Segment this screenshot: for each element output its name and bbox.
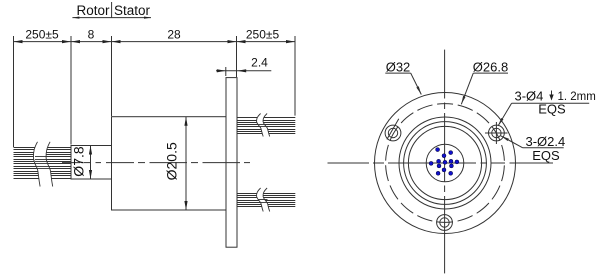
svg-text:1. 2mm: 1. 2mm [558, 91, 596, 103]
svg-text:Ø7.8: Ø7.8 [71, 146, 87, 177]
svg-text:EQS: EQS [532, 148, 560, 163]
svg-text:28: 28 [167, 28, 181, 42]
svg-text:250±5: 250±5 [246, 28, 280, 42]
svg-text:EQS: EQS [538, 102, 566, 117]
svg-text:8: 8 [88, 28, 95, 42]
svg-text:250±5: 250±5 [25, 28, 59, 42]
svg-text:Ø32: Ø32 [386, 60, 411, 75]
svg-text:3-Ø2.4: 3-Ø2.4 [526, 134, 566, 149]
svg-text:Stator: Stator [114, 3, 151, 18]
svg-text:3-Ø4: 3-Ø4 [515, 89, 544, 104]
svg-text:Rotor: Rotor [76, 3, 110, 18]
svg-text:Ø20.5: Ø20.5 [164, 142, 180, 180]
svg-text:2.4: 2.4 [251, 56, 268, 70]
svg-text:Ø26.8: Ø26.8 [473, 60, 508, 75]
